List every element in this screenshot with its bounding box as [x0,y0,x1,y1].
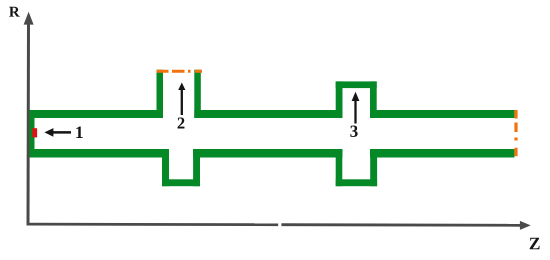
lower stub 1 right wall [193,149,200,186]
upper stub 2 right wall [370,81,377,118]
lower stub 2 bottom wall [336,179,377,186]
port 1 red marker on left wall [32,128,37,137]
upper stub 2 top wall [336,81,377,88]
lower stub 1 left wall [162,149,169,186]
waveguide left end wall [30,110,35,158]
waveguide top wall segment left of stub 1 [30,110,164,118]
arrow 1 (points left toward port 1) [44,128,71,137]
label 3 [350,126,357,138]
upper stub 1 left wall [157,70,164,118]
upper stub 1 right wall [194,70,201,118]
waveguide top wall segment right of stub 2 [370,110,514,118]
waveguide top wall segment between stub 1 and stub 2 [194,110,342,118]
right end open-port dash-dot line [514,110,517,158]
label 2 [178,118,185,129]
Z axis [27,221,531,230]
arrow 2 (points up into stub 1) [178,83,185,116]
R axis [24,12,34,225]
arrow 3 (points up into stub 2) [352,92,360,124]
lower stub 2 right wall [370,149,377,186]
upper stub 2 left wall [336,81,343,118]
label 1 [76,127,82,139]
waveguide bottom wall segment between lower stubs [193,149,342,158]
lower stub 1 bottom wall [162,179,200,186]
waveguide bottom wall segment left of lower stub 1 [30,149,170,158]
Z axis label [530,238,540,249]
R axis label [9,7,20,17]
waveguide bottom wall segment right of lower stub 2 [370,149,514,158]
upper stub 1 open-port dash-dot line [157,70,203,73]
lower stub 2 left wall [336,149,343,186]
